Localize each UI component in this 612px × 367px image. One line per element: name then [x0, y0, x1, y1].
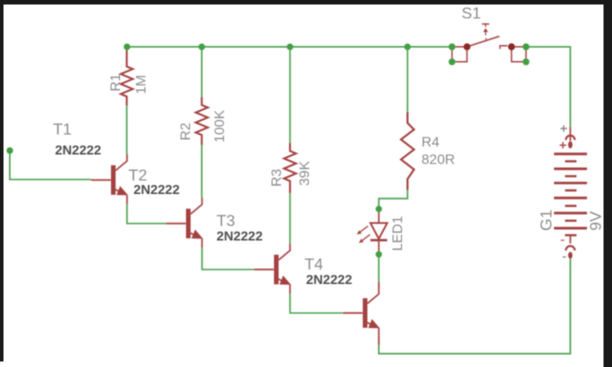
svg-text:R1: R1 [107, 73, 123, 91]
wire top bus segment D to switch [408, 46, 453, 48]
svg-text:100K: 100K [211, 109, 227, 142]
LED LED1 [357, 211, 387, 252]
switch S1 [452, 24, 526, 62]
resistor R4 [401, 112, 414, 190]
battery G1 [554, 125, 587, 258]
node switch contact right [508, 43, 515, 50]
svg-text:9V: 9V [588, 211, 605, 231]
node switch contact left [464, 43, 471, 50]
wire T4 emitter to Q4 base [290, 294, 343, 314]
wire R1 bottom to T2 collector [126, 106, 128, 155]
node LED cathode [376, 251, 382, 257]
wire node C to R3 top [289, 47, 291, 143]
node D (R4 top) [404, 44, 411, 51]
wire R4 bottom to LED anode [379, 190, 408, 206]
wire node B to R2 top [201, 47, 203, 97]
node B (R2 top) [198, 44, 205, 51]
transistor T4 (Q3) [254, 244, 291, 294]
wire top bus segment B-C [202, 46, 290, 48]
wire R3 bottom to T4 collector [289, 193, 291, 244]
svg-text:T3: T3 [217, 213, 236, 230]
node LED anode [376, 206, 382, 212]
wire top bus segment A-B [127, 46, 202, 48]
transistor Q4 [343, 282, 380, 345]
svg-text:39K: 39K [296, 160, 312, 186]
resistor R2 [196, 97, 208, 145]
wire top bus segment C-D [290, 46, 408, 48]
node A (R1 top) [124, 44, 131, 51]
resistor R1 [121, 50, 133, 106]
wire switch to battery top [526, 47, 570, 127]
transistor T3 (Q2) [166, 198, 203, 248]
svg-text:G1: G1 [539, 209, 556, 230]
wire node D to R4 top [407, 47, 409, 112]
wire T2 emitter to T3 base [127, 204, 166, 224]
node switch pin 1 [449, 43, 456, 50]
svg-text:2N2222: 2N2222 [217, 229, 263, 244]
node switch pin 4 [523, 58, 530, 65]
transistor T2 (Q1) [91, 154, 128, 204]
svg-text:R4: R4 [422, 134, 440, 150]
node switch pin 3 [523, 43, 530, 50]
svg-text:LED1: LED1 [389, 216, 405, 251]
svg-text:2N2222: 2N2222 [55, 143, 101, 158]
svg-text:R3: R3 [268, 169, 284, 187]
wire R2 bottom to T3 collector [201, 145, 203, 198]
svg-text:T4: T4 [305, 257, 324, 274]
svg-text:2N2222: 2N2222 [134, 182, 180, 197]
wire input terminal to T2 base [10, 152, 91, 180]
node input terminal [7, 147, 14, 154]
node C (R3 top) [287, 44, 294, 51]
wire battery bottom to bottom bus to Q4 emitter [379, 259, 571, 354]
svg-text:R2: R2 [177, 122, 193, 140]
node switch pin 2 [449, 58, 456, 65]
wire LED cathode to Q4 collector [378, 258, 380, 289]
svg-text:T1: T1 [53, 122, 72, 139]
svg-text:820R: 820R [422, 151, 455, 167]
svg-text:1M: 1M [132, 75, 148, 94]
svg-text:S1: S1 [462, 6, 482, 23]
svg-text:2N2222: 2N2222 [306, 272, 352, 287]
resistor R3 [284, 143, 296, 193]
wire T3 emitter to T4 base [202, 248, 254, 270]
